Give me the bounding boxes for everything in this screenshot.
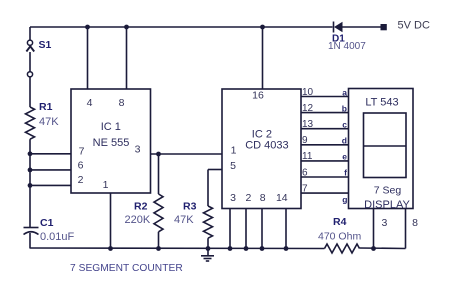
wire diode anode to 5V terminal — [343, 26, 382, 28]
svg-text:14: 14 — [276, 192, 288, 204]
svg-text:10: 10 — [302, 87, 314, 98]
ground — [201, 246, 214, 261]
svg-text:LT 543: LT 543 — [365, 96, 398, 108]
wire to IC1 pin 2 — [30, 184, 71, 186]
svg-text:470 Ohm: 470 Ohm — [318, 231, 361, 243]
wire IC2 pin8 to rail — [261, 209, 263, 249]
resistor R2 — [154, 154, 163, 249]
svg-text:1: 1 — [231, 145, 237, 157]
junction node IC2 pin3/rail — [228, 246, 233, 251]
display LT543 box — [349, 89, 414, 209]
wire C1 to bottom rail — [29, 233, 31, 249]
junction node IC2 pin8/rail — [260, 246, 265, 251]
junction node rail/IC1 pin4 — [85, 25, 90, 30]
svg-text:220K: 220K — [125, 214, 151, 226]
junction node pin1/rail — [108, 246, 113, 251]
resistor R3 — [204, 170, 223, 249]
svg-text:e: e — [342, 152, 347, 162]
svg-text:5: 5 — [230, 160, 236, 172]
svg-text:13: 13 — [302, 119, 314, 130]
wire rail to IC2 pin 16 — [262, 27, 264, 89]
display digit outline — [364, 113, 407, 178]
svg-text:NE 555: NE 555 — [93, 137, 130, 149]
svg-text:8: 8 — [412, 217, 418, 229]
svg-text:8: 8 — [119, 97, 125, 109]
junction node pin2 row — [28, 183, 33, 188]
wire display pin3 to rail — [373, 209, 375, 249]
wire IC2 pin10 to segment a — [301, 96, 349, 98]
svg-text:d: d — [342, 136, 347, 146]
junction node rail/IC1 pin8 — [124, 25, 129, 30]
resistor R4 — [325, 244, 360, 253]
svg-text:8: 8 — [260, 192, 266, 204]
wire R1 to C1 — [29, 139, 31, 227]
svg-text:R3: R3 — [183, 200, 197, 212]
svg-text:f: f — [344, 168, 347, 178]
svg-text:47K: 47K — [39, 116, 59, 128]
wire IC2 pin11 to segment e — [301, 160, 349, 162]
svg-text:16: 16 — [252, 90, 264, 102]
wire IC1 pin1 to bottom rail — [110, 193, 112, 249]
wire left rail top segment — [29, 27, 31, 40]
svg-text:7 Seg: 7 Seg — [374, 185, 402, 197]
wire to IC1 pin 6 — [30, 169, 71, 171]
svg-text:S1: S1 — [39, 39, 52, 51]
svg-text:1: 1 — [103, 179, 109, 191]
svg-text:R1: R1 — [39, 101, 53, 113]
wire bottom rail left — [30, 247, 325, 250]
svg-text:a: a — [342, 88, 347, 98]
wire to IC1 pin 7 — [30, 153, 71, 155]
svg-text:R2: R2 — [134, 200, 148, 212]
svg-text:47K: 47K — [174, 214, 194, 226]
wire IC2 pin9 to segment d — [301, 144, 349, 146]
wire rail to IC1 pin 4 — [87, 27, 89, 89]
svg-text:CD 4033: CD 4033 — [245, 140, 288, 152]
svg-text:12: 12 — [302, 103, 314, 114]
IC1 NE555 box — [71, 89, 151, 193]
wire IC2 pin6 to segment f — [301, 176, 349, 178]
wire IC2 pin2 to rail — [245, 209, 247, 249]
svg-text:7: 7 — [79, 146, 85, 158]
wire IC2 pin14 to rail — [285, 209, 287, 249]
junction node display pin3/rail — [371, 246, 376, 251]
svg-text:7: 7 — [302, 184, 308, 195]
svg-text:DISPLAY: DISPLAY — [364, 199, 410, 211]
wire IC2 pin3 to rail — [229, 209, 231, 249]
junction node pin7 row — [28, 151, 33, 156]
svg-text:c: c — [342, 120, 347, 130]
svg-text:9: 9 — [302, 135, 308, 146]
5V DC terminal pad — [381, 24, 387, 30]
wire S1 to R1 — [29, 77, 31, 107]
diode D1 — [334, 22, 343, 33]
junction node IC2 pin2/rail — [244, 246, 249, 251]
svg-text:R4: R4 — [333, 216, 347, 228]
svg-text:IC 2: IC 2 — [252, 128, 272, 140]
svg-text:C1: C1 — [40, 217, 54, 229]
svg-text:6: 6 — [302, 168, 308, 179]
svg-text:5V DC: 5V DC — [398, 20, 430, 32]
wire display pin8 to rail — [405, 209, 407, 249]
junction node rail/IC2 pin16 — [260, 25, 265, 30]
switch S1 — [26, 40, 34, 77]
capacitor C1 — [24, 228, 39, 235]
svg-text:0.01uF: 0.01uF — [40, 231, 75, 243]
svg-text:1N 4007: 1N 4007 — [328, 41, 366, 52]
svg-text:3: 3 — [381, 217, 387, 229]
svg-text:11: 11 — [302, 151, 313, 162]
wire bottom rail right — [360, 247, 406, 250]
svg-text:2: 2 — [245, 192, 251, 204]
wire IC2 pin13 to segment c — [301, 128, 349, 130]
wire rail to IC1 pin 8 — [126, 27, 128, 89]
svg-text:6: 6 — [78, 160, 84, 172]
svg-text:4: 4 — [87, 97, 93, 109]
svg-text:3: 3 — [230, 192, 236, 204]
junction node pin3/R2 — [156, 152, 161, 157]
junction node pin6 row — [28, 168, 33, 173]
svg-text:7 SEGMENT COUNTER: 7 SEGMENT COUNTER — [70, 263, 183, 274]
wire top power rail — [30, 26, 333, 28]
IC2 CD4033 box — [222, 89, 301, 209]
wire IC2 pin12 to segment b — [301, 112, 349, 114]
svg-text:3: 3 — [135, 144, 141, 156]
junction node R2/rail — [156, 246, 161, 251]
svg-text:2: 2 — [78, 174, 84, 186]
wire IC1 pin3 to IC2 pin1 — [151, 153, 223, 155]
junction node IC2 pin14/rail — [284, 246, 289, 251]
svg-text:b: b — [342, 104, 347, 114]
resistor R1 — [26, 107, 35, 139]
svg-text:g: g — [342, 195, 347, 205]
wire IC2 pin7 to segment g — [301, 192, 349, 194]
svg-text:IC 1: IC 1 — [101, 121, 121, 133]
